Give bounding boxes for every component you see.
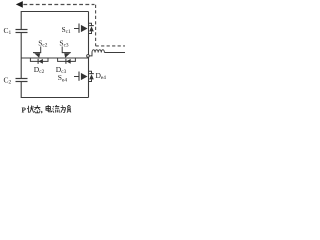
transistor Sc2: [33, 38, 48, 58]
current direction arrow (dashed loop arrowhead): [16, 1, 23, 8]
hanzi fu: [67, 105, 71, 112]
svg-text:P: P: [22, 107, 27, 115]
capacitor C2: [4, 76, 28, 86]
wire left bus between C1 and C2: [20, 33, 22, 78]
inductor L load filter: [89, 50, 125, 56]
hanzi tai: [34, 105, 40, 113]
hanzi zhuang: [27, 106, 33, 113]
diode Dc2: [30, 58, 48, 75]
diode De4 antiparallel to Se4: [89, 71, 107, 82]
hanzi dian: [46, 105, 52, 112]
wire dashed current path lower segment to load: [96, 45, 125, 47]
hanzi liu: [53, 105, 60, 112]
wire dashed current path right vertical segment: [95, 5, 97, 46]
diode D1 antiparallel to Sc1: [89, 23, 94, 33]
wire leg between Sc1 and Sc4: [88, 12, 90, 98]
hanzi wei: [61, 105, 66, 112]
caption text: P state, current negative: [22, 105, 72, 115]
wire clamp branch from DC midpoint: [21, 57, 88, 59]
transistor Sc1: [62, 24, 88, 35]
transistor Sc3: [59, 38, 70, 58]
wire bottom bus N rail: [21, 81, 88, 97]
capacitor C1: [4, 26, 28, 36]
wire dashed current path top segment: [23, 4, 94, 6]
transistor Se4: [58, 72, 88, 84]
comma: [40, 111, 43, 113]
diode Dc3: [56, 58, 76, 75]
wire top bus P rail: [21, 12, 88, 31]
node output terminal (open ring): [87, 55, 90, 58]
